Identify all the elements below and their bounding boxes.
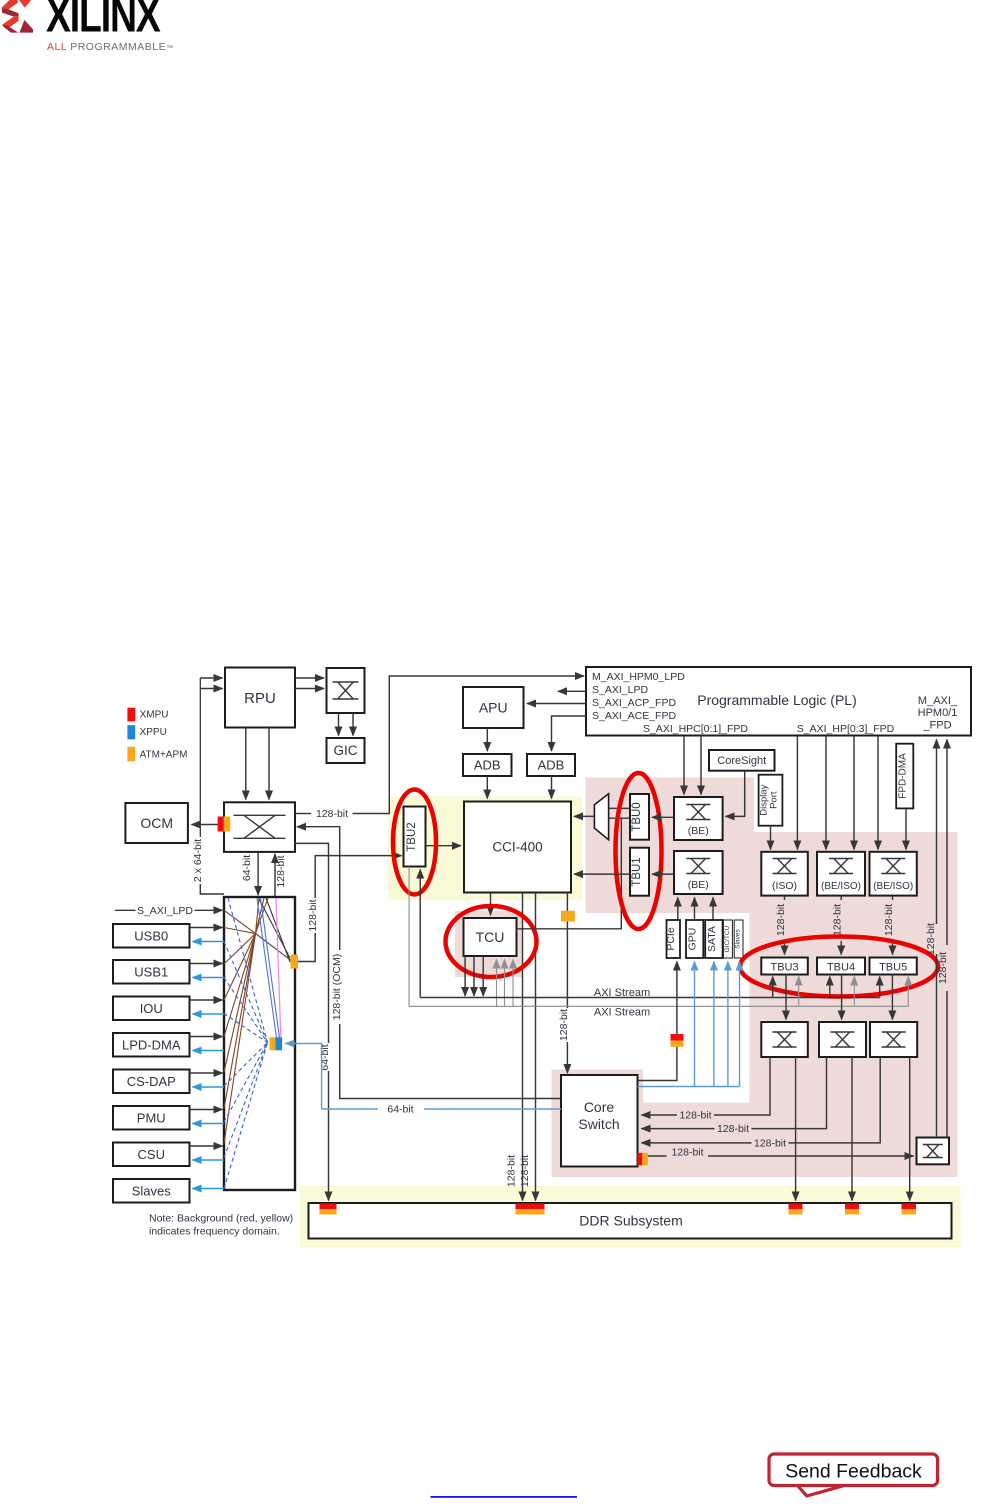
block TBU1 <box>630 848 649 896</box>
svg-text:ALL PROGRAMMABLE™: ALL PROGRAMMABLE™ <box>47 41 174 53</box>
svg-text:128-bit: 128-bit <box>925 923 937 955</box>
wire FPD-DMA to switch <box>905 808 907 849</box>
legend ATM+APM marker <box>127 747 135 762</box>
wire lower switch2 to Core Switch 128-bit <box>752 1057 827 1129</box>
wire CCI to TCU <box>490 893 492 916</box>
yellow domain region CCI <box>388 797 582 901</box>
pink domain region TCU <box>455 911 522 977</box>
wire CS-DAP to LPD switch <box>190 1072 223 1074</box>
svg-text:ATM+APM: ATM+APM <box>140 749 188 760</box>
svg-text:XILINX: XILINX <box>46 0 161 43</box>
LPD main switch crossbar <box>224 802 295 852</box>
wire 128-bit LPD switch up to main switch <box>274 854 276 897</box>
svg-text:S_AXI_HP[0:3]_FPD: S_AXI_HP[0:3]_FPD <box>797 723 895 735</box>
svg-text:TBU3: TBU3 <box>770 962 798 974</box>
wire CCI to DDR port0 <box>522 893 524 1201</box>
wire PL S_AXI_LPD stub <box>558 690 586 692</box>
ATM marker TBU2 port <box>291 955 299 969</box>
block CSU <box>113 1143 190 1167</box>
wire 64-bit LPD main switch down to LPD switch <box>257 852 259 895</box>
svg-text:TCU: TCU <box>476 929 505 945</box>
svg-text:IOU: IOU <box>140 1001 163 1016</box>
wire black diagonals to TBU2 port <box>259 898 291 958</box>
send feedback button <box>769 1454 938 1496</box>
svg-text:OCM: OCM <box>140 815 173 831</box>
block Display Port <box>759 775 783 826</box>
wire LPD switch to IOU <box>193 1013 225 1015</box>
wire LPD switch to CS-DAP <box>193 1086 225 1088</box>
svg-text:GIC: GIC <box>333 743 357 758</box>
wire TBU5 to switch <box>891 975 893 1020</box>
svg-text:128-bit (OCM): 128-bit (OCM) <box>331 954 343 1021</box>
wire TBU3 to switch <box>785 975 787 1020</box>
svg-text:M_AXI_: M_AXI_ <box>918 695 958 707</box>
svg-text:128-bit: 128-bit <box>937 952 949 984</box>
wire 128-bit OCM return from Core Switch <box>340 1024 561 1099</box>
svg-text:Send Feedback: Send Feedback <box>785 1461 922 1483</box>
marker DDR port4 <box>845 1204 859 1210</box>
wire lower switch3 to Core Switch 128-bit <box>789 1057 881 1143</box>
wire 128-bit LPD switch to TBU2 <box>298 933 315 962</box>
block TBU2 <box>404 807 426 867</box>
wire TBU4 to switch <box>841 975 843 1020</box>
svg-text:ADB: ADB <box>474 758 501 773</box>
svg-text:Note: Background (red, yellow): Note: Background (red, yellow) <box>149 1213 293 1225</box>
block CCI-400 <box>464 802 571 893</box>
red ellipse TBU2 <box>393 790 436 895</box>
wire CoreSight to BE switch <box>726 771 745 817</box>
marker PCIe line <box>671 1034 684 1041</box>
wire PMU to LPD switch <box>190 1109 223 1111</box>
block FPD-DMA <box>896 744 913 809</box>
svg-text:Port: Port <box>769 791 780 809</box>
wire BE/ISO to TBU5 <box>892 896 894 900</box>
wire ADB1 to CCI <box>486 776 488 799</box>
svg-text:AXI Stream: AXI Stream <box>594 987 650 999</box>
wire TBU2 to CCI <box>426 845 462 847</box>
wire Core Switch to X4 128-bit <box>648 1155 667 1157</box>
svg-text:S_AXI_LPD: S_AXI_LPD <box>592 684 648 696</box>
svg-text:GIC/TCU: GIC/TCU <box>724 925 731 952</box>
block TBU4 <box>817 958 865 975</box>
block Slaves <box>113 1179 190 1203</box>
wire magenta diagonal <box>276 898 281 1037</box>
wire LPD switch to USB1 <box>193 977 225 979</box>
svg-text:128-bit: 128-bit <box>717 1123 749 1135</box>
red ellipse TCU <box>446 906 537 977</box>
wire AXI stream line1 <box>419 870 421 998</box>
svg-text:AXI Stream: AXI Stream <box>594 1007 650 1019</box>
ATM+XPPU marker LPD-DMA port <box>270 1037 276 1050</box>
svg-text:Programmable Logic (PL): Programmable Logic (PL) <box>697 692 857 708</box>
svg-text:XPPU: XPPU <box>140 727 167 738</box>
svg-text:(BE/ISO): (BE/ISO) <box>873 881 913 892</box>
svg-text:_FPD: _FPD <box>922 720 951 732</box>
svg-text:2 x 64-bit: 2 x 64-bit <box>192 839 204 882</box>
switch X4 small <box>917 1138 950 1165</box>
wire crossbar to GIC <box>338 713 340 736</box>
svg-text:FPD-DMA: FPD-DMA <box>898 753 909 799</box>
svg-text:S_AXI_ACE_FPD: S_AXI_ACE_FPD <box>592 710 676 722</box>
legend XMPU marker <box>127 708 135 722</box>
wire brown master fan <box>224 910 256 933</box>
svg-text:(BE): (BE) <box>688 825 709 837</box>
svg-text:128-bit: 128-bit <box>307 899 319 931</box>
svg-text:128-bit: 128-bit <box>519 1155 531 1187</box>
pink domain region upper-left (TBU0/BE) <box>586 778 755 914</box>
svg-text:S_AXI_LPD: S_AXI_LPD <box>137 905 193 917</box>
wire RPU to interrupt crossbar <box>295 677 324 679</box>
wire blue dashed slave fan <box>224 942 268 1043</box>
svg-text:(ISO): (ISO) <box>772 880 797 892</box>
wire USB1 to LPD switch <box>190 963 223 965</box>
block RPU <box>225 668 295 728</box>
XMPU/ATM marker at OCM port <box>218 817 224 832</box>
block SATA <box>705 920 722 958</box>
svg-text:XMPU: XMPU <box>140 709 169 720</box>
wire PL S_AXI_ACE to ADB2 <box>552 716 587 751</box>
wire IOU to LPD switch <box>190 999 223 1001</box>
wire mux to TBU0 <box>609 807 630 809</box>
block LPD-DMA <box>113 1033 190 1057</box>
wire lower switches to DDR <box>795 1057 797 1201</box>
wire ISO switch to TBU3 <box>784 896 786 900</box>
wire LPD main switch to OCM <box>192 824 225 826</box>
svg-text:CoreSight: CoreSight <box>717 755 766 767</box>
wire CCI to DDR port1 <box>535 893 537 1201</box>
block GPU <box>686 920 703 958</box>
node S_AXI_LPD <box>115 909 136 911</box>
wire AXI stream line2 gray <box>408 867 410 1007</box>
wire LPD switch to Slaves <box>193 1188 225 1190</box>
svg-text:S_AXI_HPC[0:1]_FPD: S_AXI_HPC[0:1]_FPD <box>643 723 748 735</box>
svg-text:TBU5: TBU5 <box>879 962 907 974</box>
pink domain region right column <box>750 832 958 1177</box>
svg-text:64-bit: 64-bit <box>241 855 253 881</box>
svg-text:CCI-400: CCI-400 <box>492 840 542 855</box>
red ellipse TBU3 TBU4 TBU5 <box>740 937 938 997</box>
svg-text:(BE): (BE) <box>688 879 709 891</box>
wire LPD switch to LPD-DMA <box>193 1050 225 1052</box>
marker DDR port LPD <box>320 1204 337 1210</box>
wire Core Switch to PCIe <box>638 962 677 1081</box>
svg-text:128-bit: 128-bit <box>506 1155 518 1187</box>
wire Display Port to ISO switch <box>770 826 772 850</box>
svg-text:Slaves: Slaves <box>132 1183 172 1198</box>
svg-text:128-bit: 128-bit <box>671 1147 703 1159</box>
mux trapezoid <box>594 794 608 840</box>
switch X lower3 <box>870 1022 917 1057</box>
switch X lower2 <box>819 1022 866 1057</box>
svg-text:RPU: RPU <box>244 690 276 707</box>
wire PL HP drops <box>796 736 798 850</box>
wire 64-bit LPD switch to DDR <box>294 843 329 1043</box>
wire ADB2 to CCI <box>551 776 553 799</box>
svg-text:Slaves: Slaves <box>735 928 742 948</box>
legend XPPU marker <box>127 725 135 739</box>
svg-text:USB1: USB1 <box>134 964 168 979</box>
svg-text:PCIe: PCIe <box>665 927 677 951</box>
wire TCU to TBU0 junction <box>517 818 622 929</box>
wire mux to CCI <box>574 815 594 817</box>
marker DDR port5 <box>902 1204 917 1210</box>
svg-text:M_AXI_HPM0_LPD: M_AXI_HPM0_LPD <box>592 671 685 683</box>
marker DDR port CCI <box>516 1204 545 1210</box>
wire LPD switch to CSU <box>193 1159 225 1161</box>
block Programmable Logic (PL) <box>586 667 971 736</box>
svg-text:128-bit: 128-bit <box>275 855 287 887</box>
svg-text:DDR Subsystem: DDR Subsystem <box>579 1213 682 1229</box>
svg-text:TBU2: TBU2 <box>406 822 418 851</box>
red ellipse TBU0 TBU1 <box>616 773 662 929</box>
svg-text:128-bit: 128-bit <box>832 904 844 936</box>
svg-text:CS-DAP: CS-DAP <box>127 1074 176 1089</box>
wire blue solid pair <box>257 898 277 1038</box>
block GIC <box>327 738 365 763</box>
wire Core Switch blue to GPU SATA GIC Slaves <box>638 1086 740 1088</box>
svg-text:128-bit: 128-bit <box>883 904 895 936</box>
wire BE/ISO to TBU4 <box>840 896 842 900</box>
svg-text:TBU1: TBU1 <box>631 857 643 886</box>
block DDR Subsystem <box>309 1203 952 1239</box>
pink domain region core switch <box>552 1070 644 1178</box>
block CoreSight <box>709 750 775 771</box>
crossbar switch (GIC) <box>327 668 365 713</box>
switch X BE/ISO 2 <box>870 852 917 896</box>
svg-text:(BE/ISO): (BE/ISO) <box>821 881 861 892</box>
block IOU <box>113 997 190 1021</box>
wire PL S_AXI_ACP to APU <box>527 703 586 705</box>
svg-text:SATA: SATA <box>706 926 718 952</box>
wire RPU to LPD main switch <box>245 728 247 800</box>
block APU <box>463 687 524 728</box>
svg-text:PMU: PMU <box>137 1110 166 1125</box>
wire X4 to PL M_AXI_HPM0/1 <box>936 954 938 1138</box>
wire LPD switch to USB0 <box>193 941 225 943</box>
svg-text:128-bit: 128-bit <box>679 1110 711 1122</box>
switch X BE upper <box>674 797 723 840</box>
wire TCU outputs to AXI stream <box>464 956 466 996</box>
svg-text:TBU4: TBU4 <box>827 962 855 974</box>
wire APU to ADB1 <box>486 728 488 751</box>
block OCM <box>125 803 187 843</box>
wire CCI to Core Switch <box>566 893 568 1009</box>
svg-text:Core: Core <box>584 1099 615 1115</box>
yellow domain region DDR <box>300 1186 961 1247</box>
block PCIe <box>667 920 681 958</box>
block GIC/TCU <box>723 920 732 958</box>
block PMU <box>113 1106 190 1130</box>
block Core Switch <box>561 1075 638 1167</box>
svg-text:128-bit: 128-bit <box>316 808 348 820</box>
block TBU3 <box>761 958 808 975</box>
block TCU <box>464 918 517 956</box>
svg-text:Switch: Switch <box>578 1116 619 1132</box>
svg-text:S_AXI_ACP_FPD: S_AXI_ACP_FPD <box>592 697 676 709</box>
switch X ISO <box>761 852 808 896</box>
wire lower switch1 to Core Switch 128-bit <box>714 1057 770 1115</box>
svg-text:indicates frequency domain.: indicates frequency domain. <box>149 1226 280 1238</box>
wire 128-bit LPD switch to PL M_AXI_HPM0_LPD <box>295 813 311 815</box>
svg-text:128-bit: 128-bit <box>754 1137 786 1149</box>
svg-text:ADB: ADB <box>538 758 565 773</box>
svg-text:LPD-DMA: LPD-DMA <box>122 1037 181 1052</box>
svg-text:TBU0: TBU0 <box>631 802 643 831</box>
block CS-DAP <box>113 1070 190 1094</box>
block TBU0 <box>630 794 649 840</box>
block ADB2 <box>527 754 575 776</box>
svg-text:64-bit: 64-bit <box>319 1044 331 1070</box>
switch X BE lower <box>674 851 723 894</box>
block USB1 <box>113 960 190 984</box>
marker Core Switch 128-bit out <box>637 1153 642 1166</box>
block ADB1 <box>463 754 512 776</box>
svg-text:APU: APU <box>479 699 508 715</box>
block TBU5 <box>870 958 917 975</box>
block LPD peripheral switch <box>224 897 295 1190</box>
footer link rule <box>431 1496 578 1498</box>
wire feed to RPU from LPD switch (2 x 64-bit) <box>200 884 224 894</box>
wire PL HPC drops <box>683 736 685 795</box>
svg-text:128-bit: 128-bit <box>558 1009 570 1041</box>
switch X BE/ISO 1 <box>817 852 865 896</box>
wire LPD-DMA to LPD switch <box>190 1036 223 1038</box>
svg-text:128-bit: 128-bit <box>775 904 787 936</box>
marker DDR port3 <box>789 1204 803 1210</box>
wire PCIe GPU SATA to BE switch <box>677 898 679 921</box>
svg-text:CSU: CSU <box>138 1147 165 1162</box>
wire TBU1 to CCI <box>574 873 630 875</box>
wire 64-bit blue LPD to Core Switch <box>424 1108 561 1110</box>
wire AXI stream to TCU gray <box>496 960 498 1007</box>
logo Xilinx X mark <box>1 0 33 33</box>
wire CSU to LPD switch <box>190 1145 223 1147</box>
wire LPD switch to PMU <box>193 1123 225 1125</box>
wire USB0 to LPD switch <box>190 927 223 929</box>
block Slaves small <box>734 920 743 958</box>
ATM marker CCI-CoreSwitch <box>561 911 575 922</box>
svg-text:64-bit: 64-bit <box>387 1104 413 1116</box>
wire BE switch2 to TBU1 <box>652 873 674 875</box>
svg-text:HPM0/1: HPM0/1 <box>918 707 958 719</box>
block USB0 <box>113 924 190 948</box>
switch X lower1 <box>761 1022 808 1057</box>
svg-text:USB0: USB0 <box>134 928 168 943</box>
wire BE switch to TBU0 <box>652 816 674 818</box>
svg-text:GPU: GPU <box>687 928 699 951</box>
